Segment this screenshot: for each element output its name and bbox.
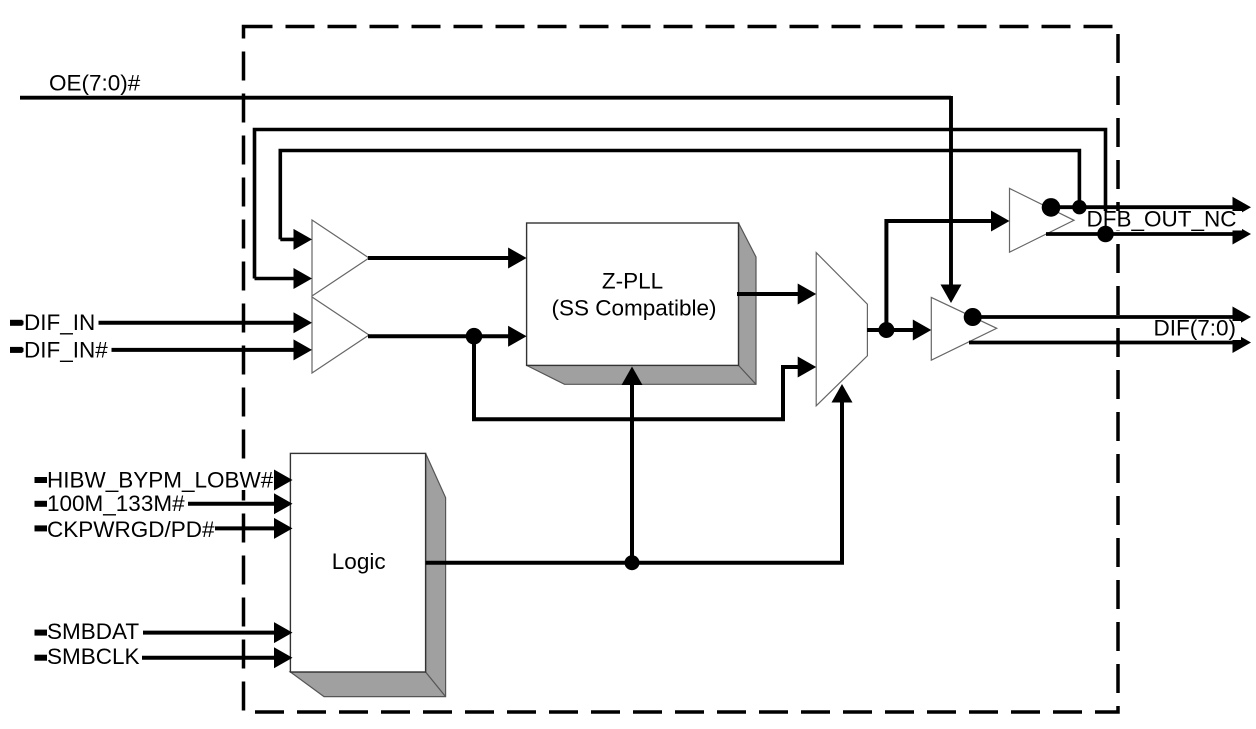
arrow DFB lower output xyxy=(1233,224,1252,245)
arrow fb2 into A1 xyxy=(294,229,313,250)
wire DIF upper output line xyxy=(971,315,1236,319)
arrow into Logic 5 xyxy=(274,647,293,668)
wire A1 output to Z-PLL xyxy=(368,256,512,260)
svg-text:100M_133M#: 100M_133M# xyxy=(47,491,185,516)
pin stub SMBCLK xyxy=(35,655,48,661)
wire DIF_IN xyxy=(10,321,297,325)
svg-text:Z-PLL: Z-PLL xyxy=(602,269,663,294)
arrow up into mux bottom xyxy=(832,384,853,403)
svg-text:OE(7:0)#: OE(7:0)# xyxy=(49,71,141,96)
node SMBCLK label xyxy=(46,646,142,667)
arrow DIF_IN into A2 xyxy=(294,312,313,333)
junction dot on mux output xyxy=(878,322,894,338)
arrow into Logic 4 xyxy=(274,622,293,643)
arrow into B1 xyxy=(991,211,1010,232)
wire CKPWRGD/PD# xyxy=(35,526,276,530)
output buffer B2 (DIF) xyxy=(931,297,996,360)
wire 100M_133M# xyxy=(35,502,276,506)
svg-text:CKPWRGD/PD#: CKPWRGD/PD# xyxy=(47,517,215,542)
junction dot B2 apex xyxy=(964,308,982,326)
pin stub 100M_133M# xyxy=(35,501,48,507)
arrow into mux lower input xyxy=(798,357,817,378)
node DFB_OUT_NC label xyxy=(1085,211,1242,231)
wire fb2 into buffer A1 upper input xyxy=(280,238,297,242)
pin stub CKPWRGD/PD# xyxy=(35,525,48,531)
wire DIF_IN# xyxy=(10,348,297,352)
arrow fb1 into A1 xyxy=(294,268,313,289)
wire SMBDAT xyxy=(35,631,276,635)
pin stub SMBDAT xyxy=(35,630,48,636)
arrow OE down into B2 xyxy=(941,285,962,304)
node DIF(7:0) label xyxy=(1153,321,1241,340)
wire OE horizontal xyxy=(20,96,951,100)
wire A2-output branch down and right to mux lower input xyxy=(474,336,801,419)
node HIBW_BYPM_LOBW# label xyxy=(46,469,280,490)
arrow DIF_IN# into A2 xyxy=(294,339,313,360)
svg-text:DIF_IN: DIF_IN xyxy=(24,310,95,335)
arrow into Logic 1 xyxy=(274,470,293,491)
node CKPWRGD/PD# label xyxy=(46,518,215,539)
wire DFB lower output line xyxy=(1046,232,1236,236)
arrow into Z-PLL upper xyxy=(508,248,526,269)
svg-text:(SS Compatible): (SS Compatible) xyxy=(551,296,716,321)
arrow DIF lower output xyxy=(1233,332,1252,353)
pin stub DIF_IN xyxy=(10,320,23,326)
wire feedback fb1 (outer) xyxy=(255,130,1106,279)
junction dot fb2 on DFB upper line xyxy=(1072,200,1086,214)
arrow up into Z-PLL bottom xyxy=(622,367,643,386)
arrow into mux upper input xyxy=(798,284,817,305)
input buffer A1 (top) xyxy=(312,220,369,296)
pin stub HIBW_BYPM_LOBW# xyxy=(35,477,48,483)
node SMBDAT label xyxy=(46,621,143,642)
wire Z-PLL output to mux upper input xyxy=(737,292,801,296)
Z-PLL U1 box shadow corner line xyxy=(739,365,757,384)
svg-text:HIBW_BYPM_LOBW#: HIBW_BYPM_LOBW# xyxy=(47,468,274,493)
Z-PLL U1 box xyxy=(527,223,739,365)
svg-text:SMBCLK: SMBCLK xyxy=(47,644,140,669)
arrow into Z-PLL lower xyxy=(508,326,526,347)
wire mux output to B2 xyxy=(867,328,917,332)
wire DFB upper output line xyxy=(1049,205,1236,209)
Logic U2 box shadow xyxy=(290,453,445,696)
input buffer A2 (bottom) xyxy=(312,297,369,373)
svg-text:DIF(7:0): DIF(7:0) xyxy=(1154,316,1237,341)
Z-PLL U1 box shadow xyxy=(527,223,756,384)
pin stub DIF_IN# xyxy=(10,347,23,353)
wire DIF lower output line xyxy=(969,341,1236,345)
arrow into Logic 2 xyxy=(274,493,293,514)
mux M1 xyxy=(816,253,867,406)
junction dot on A2 output xyxy=(466,328,483,345)
wire mux output feedback up to B1 input xyxy=(886,221,995,330)
wire HIBW_BYPM_LOBW# xyxy=(35,478,276,482)
svg-text:DIF_IN#: DIF_IN# xyxy=(24,337,108,362)
Logic U2 box shadow corner line xyxy=(426,672,446,697)
arrow into B2 xyxy=(913,320,932,341)
arrow DIF upper output xyxy=(1233,307,1252,328)
junction dot fb1 on DFB lower line xyxy=(1097,226,1114,243)
junction dot B1 apex xyxy=(1042,198,1061,217)
junction dot on Logic output xyxy=(625,555,640,570)
wire fb1 into buffer A1 lower input xyxy=(255,277,298,281)
wire SMBCLK xyxy=(35,656,276,660)
node DIF_IN label xyxy=(24,312,99,333)
svg-text:SMBDAT: SMBDAT xyxy=(47,619,139,644)
arrow into Logic 3 xyxy=(274,518,293,539)
chip boundary (dashed) xyxy=(244,27,1119,713)
Logic U2 box xyxy=(290,453,425,672)
wire A2 output to Z-PLL xyxy=(368,334,512,338)
wire Logic output xyxy=(426,400,842,563)
node DIF_IN# label xyxy=(24,339,112,360)
wire Logic branch up to Z-PLL bottom xyxy=(630,380,634,563)
svg-text:Logic: Logic xyxy=(332,549,386,574)
node 100M_133M# label xyxy=(46,493,188,514)
wire feedback fb2 (inner) xyxy=(280,151,1079,240)
arrow DFB upper output xyxy=(1233,197,1252,218)
output buffer B1 (DFB) xyxy=(1010,188,1075,252)
wire OE vertical drop xyxy=(949,96,953,287)
